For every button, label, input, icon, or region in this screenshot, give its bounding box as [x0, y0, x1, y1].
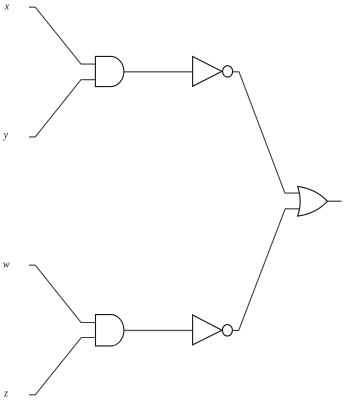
wire x to U1 input A — [29, 7, 95, 64]
wire U4 output to U5 bottom input — [233, 209, 299, 331]
AND gate U1 — [95, 56, 123, 86]
AND gate U3 — [96, 315, 124, 346]
svg-text:w: w — [3, 259, 10, 270]
NOT gate U4 triangle — [193, 315, 222, 345]
wire z to U3 input B — [29, 338, 96, 395]
OR gate U5 — [298, 186, 328, 216]
NOT gate U2 triangle — [193, 57, 222, 87]
wire U2 output to U5 top input — [233, 72, 299, 193]
svg-text:x: x — [4, 2, 10, 13]
NOT gate U2 bubble — [223, 66, 233, 77]
wire U5 output — [327, 200, 341, 202]
wire U1 output to U2 input — [124, 71, 193, 73]
wire w to U3 input A — [29, 265, 96, 322]
wire U3 output to U4 input — [124, 329, 193, 331]
wire y to U1 input B — [29, 80, 95, 137]
svg-text:z: z — [3, 389, 8, 400]
NOT gate U4 bubble — [222, 325, 232, 336]
svg-text:y: y — [3, 130, 9, 141]
